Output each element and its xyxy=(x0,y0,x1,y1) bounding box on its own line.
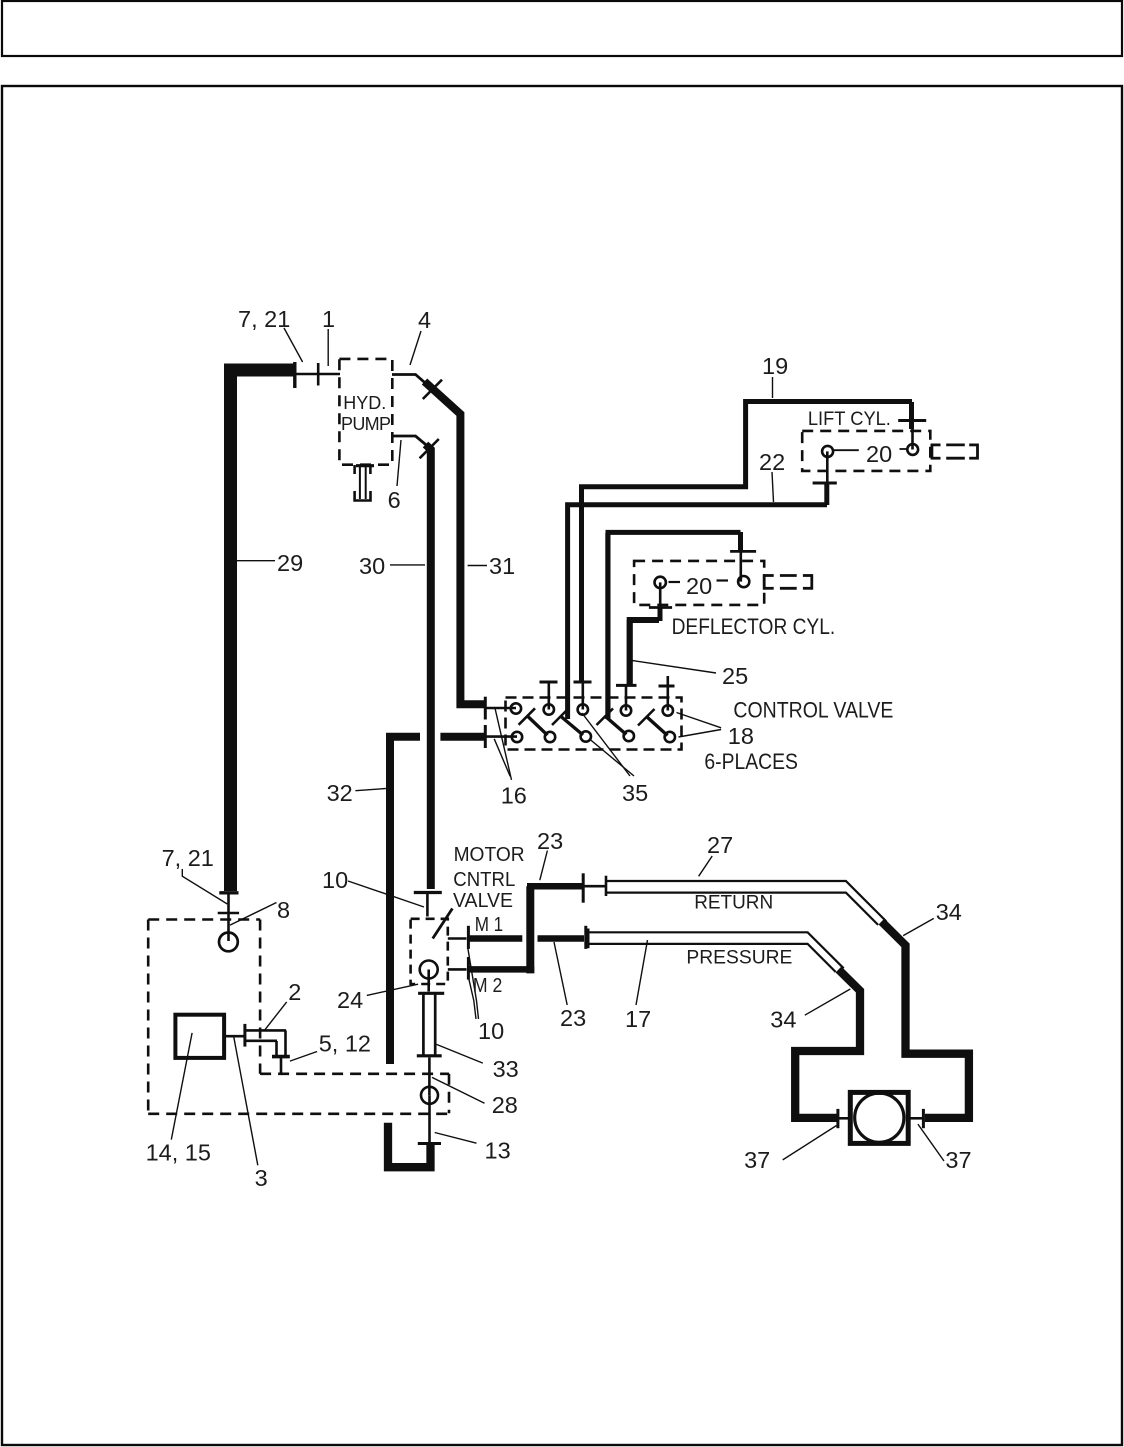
svg-text:3: 3 xyxy=(255,1165,268,1191)
svg-text:30: 30 xyxy=(359,553,385,579)
svg-text:37: 37 xyxy=(945,1147,971,1173)
svg-text:14, 15: 14, 15 xyxy=(146,1140,211,1166)
svg-text:CNTRL: CNTRL xyxy=(453,868,515,891)
svg-text:37: 37 xyxy=(744,1147,770,1173)
svg-text:CONTROL VALVE: CONTROL VALVE xyxy=(733,698,893,723)
svg-text:16: 16 xyxy=(501,783,527,809)
svg-text:29: 29 xyxy=(277,550,303,576)
svg-text:32: 32 xyxy=(327,780,353,806)
svg-text:M 1: M 1 xyxy=(475,914,504,936)
svg-text:PUMP: PUMP xyxy=(341,414,391,434)
svg-text:DEFLECTOR CYL.: DEFLECTOR CYL. xyxy=(672,614,836,639)
svg-text:7, 21: 7, 21 xyxy=(162,845,214,871)
svg-text:MOTOR: MOTOR xyxy=(454,843,525,866)
svg-text:M 2: M 2 xyxy=(473,975,502,997)
svg-text:LIFT CYL.: LIFT CYL. xyxy=(808,409,891,430)
svg-text:25: 25 xyxy=(722,663,748,689)
svg-text:RETURN: RETURN xyxy=(694,892,773,914)
svg-text:23: 23 xyxy=(560,1005,586,1031)
svg-text:6: 6 xyxy=(388,487,401,513)
svg-text:20: 20 xyxy=(866,441,892,467)
svg-text:18: 18 xyxy=(728,723,754,749)
svg-text:31: 31 xyxy=(489,553,515,579)
svg-text:24: 24 xyxy=(337,987,363,1013)
svg-text:PRESSURE: PRESSURE xyxy=(686,947,792,968)
svg-text:5, 12: 5, 12 xyxy=(319,1031,371,1057)
svg-text:10: 10 xyxy=(322,867,348,893)
svg-text:17: 17 xyxy=(625,1006,651,1032)
svg-text:23: 23 xyxy=(537,828,563,854)
svg-text:10: 10 xyxy=(478,1018,504,1044)
svg-text:34: 34 xyxy=(770,1007,796,1033)
svg-text:33: 33 xyxy=(493,1056,519,1082)
svg-text:35: 35 xyxy=(622,780,648,806)
svg-text:27: 27 xyxy=(707,832,733,858)
svg-text:VALVE: VALVE xyxy=(453,889,513,912)
svg-text:2: 2 xyxy=(288,979,301,1005)
svg-text:13: 13 xyxy=(485,1137,511,1163)
svg-text:HYD.: HYD. xyxy=(343,393,386,413)
svg-text:28: 28 xyxy=(492,1092,518,1118)
svg-text:22: 22 xyxy=(759,449,785,475)
svg-text:34: 34 xyxy=(936,899,962,925)
svg-text:19: 19 xyxy=(762,353,788,379)
svg-text:4: 4 xyxy=(418,307,431,333)
svg-text:1: 1 xyxy=(322,306,335,332)
svg-text:8: 8 xyxy=(277,897,290,923)
svg-text:6-PLACES: 6-PLACES xyxy=(704,749,798,774)
svg-text:7, 21: 7, 21 xyxy=(238,306,290,332)
svg-text:20: 20 xyxy=(686,573,712,599)
